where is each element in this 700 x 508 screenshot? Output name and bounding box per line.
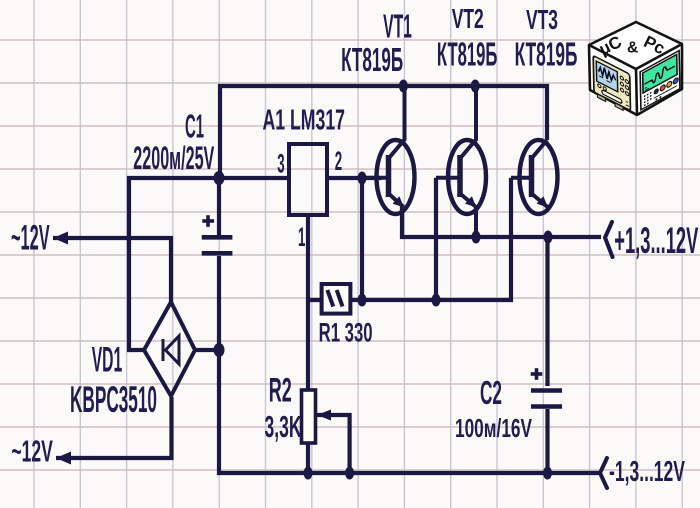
svg-text:~12V: ~12V: [11, 219, 50, 258]
svg-text:3,3K: 3,3K: [265, 409, 302, 444]
svg-text:2200м/25V: 2200м/25V: [133, 140, 214, 176]
svg-text:C2: C2: [480, 374, 502, 411]
svg-text:KBPC3510: KBPC3510: [70, 379, 157, 420]
svg-text:R1 330: R1 330: [319, 317, 373, 347]
svg-text:3: 3: [277, 148, 284, 178]
svg-text:VT2: VT2: [452, 3, 484, 34]
svg-text:2: 2: [335, 146, 342, 176]
svg-text:КТ819Б: КТ819Б: [515, 36, 578, 73]
svg-text:КТ819Б: КТ819Б: [341, 41, 403, 78]
svg-text:A1 LM317: A1 LM317: [263, 105, 346, 137]
svg-text:C1: C1: [185, 107, 204, 144]
svg-text:100м/16V: 100м/16V: [455, 413, 532, 443]
svg-text:КТ819Б: КТ819Б: [437, 36, 498, 73]
svg-text:+1,3...12V: +1,3...12V: [614, 220, 698, 261]
svg-text:R2: R2: [269, 372, 292, 410]
svg-text:1: 1: [298, 222, 305, 252]
svg-text:-1,3...12V: -1,3...12V: [609, 456, 685, 488]
svg-text:&: &: [627, 40, 638, 57]
svg-text:VT1: VT1: [383, 8, 412, 45]
svg-text:VT3: VT3: [526, 4, 558, 35]
svg-text:VD1: VD1: [92, 341, 123, 380]
svg-text:~12V: ~12V: [11, 434, 53, 469]
